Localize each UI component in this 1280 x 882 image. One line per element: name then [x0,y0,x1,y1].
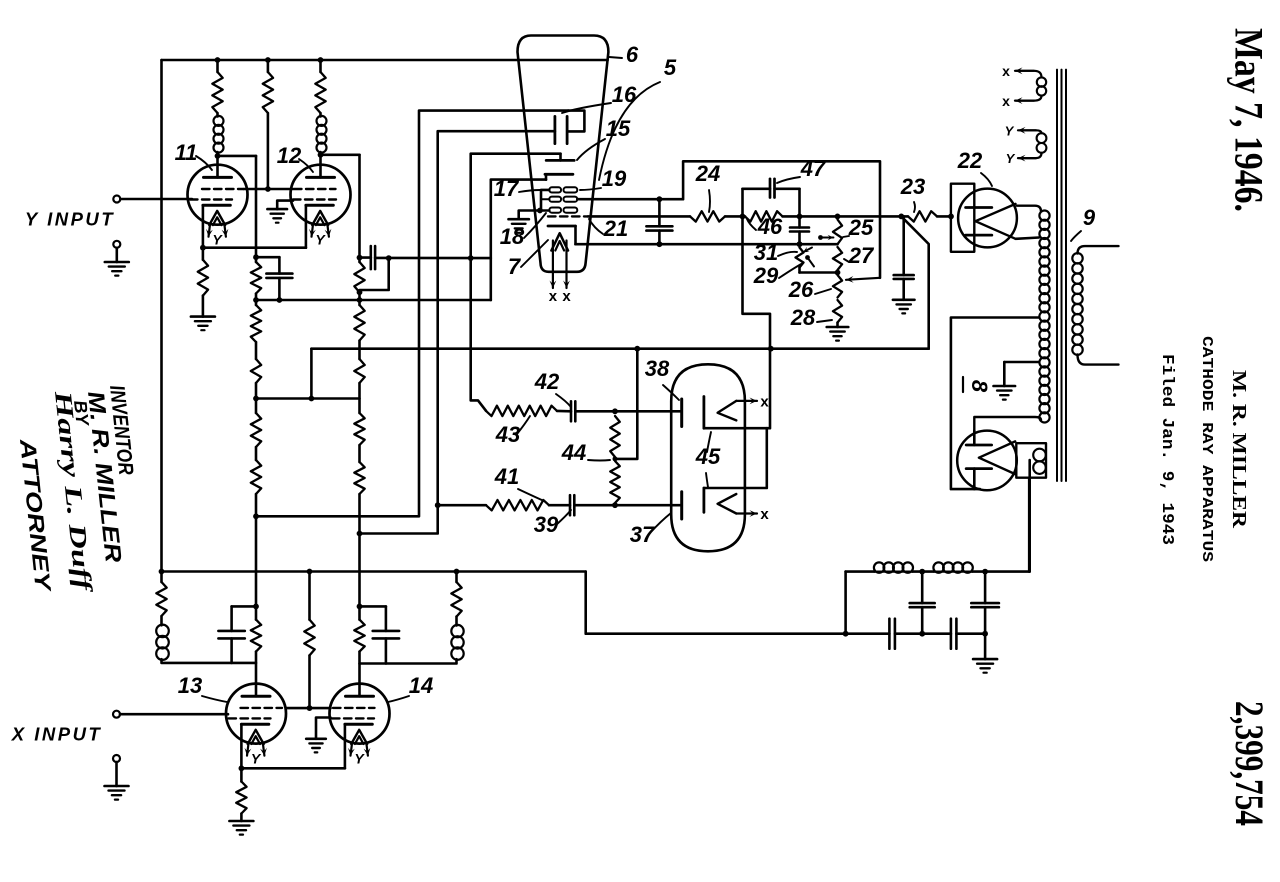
svg-text:47: 47 [800,156,827,181]
svg-text:42: 42 [534,369,560,394]
svg-text:M. R. MILLER: M. R. MILLER [1228,370,1250,529]
svg-text:Y: Y [1005,124,1015,139]
svg-text:37: 37 [630,522,656,547]
svg-text:19: 19 [602,166,627,191]
svg-text:31: 31 [754,240,778,265]
svg-text:15: 15 [606,116,631,141]
svg-text:Filed Jan. 9, 1943: Filed Jan. 9, 1943 [1157,354,1176,545]
svg-text:44: 44 [561,440,586,465]
svg-text:21: 21 [603,216,628,241]
svg-text:X INPUT: X INPUT [11,724,102,745]
svg-text:25: 25 [848,215,874,240]
svg-text:x: x [549,288,558,305]
svg-text:26: 26 [788,277,814,302]
svg-text:2,399,754: 2,399,754 [1227,701,1272,826]
svg-text:13: 13 [178,673,202,698]
svg-text:9: 9 [1083,205,1096,230]
svg-text:17: 17 [494,176,520,201]
svg-text:5: 5 [664,55,677,80]
svg-text:x: x [1002,63,1010,79]
svg-text:Y: Y [1006,151,1016,166]
svg-text:11: 11 [175,140,198,165]
svg-text:29: 29 [753,263,779,288]
svg-text:41: 41 [494,464,519,489]
svg-text:14: 14 [409,673,433,698]
svg-text:38: 38 [645,356,670,381]
svg-text:x: x [1002,93,1010,109]
svg-text:23: 23 [900,174,925,199]
svg-text:6: 6 [626,42,639,67]
svg-text:27: 27 [848,243,875,268]
svg-text:x: x [760,394,769,411]
svg-text:12: 12 [277,143,302,168]
svg-text:x: x [562,288,571,305]
svg-text:7: 7 [508,254,522,279]
svg-text:8: 8 [967,380,992,393]
svg-text:Y INPUT: Y INPUT [25,209,115,230]
svg-text:18: 18 [500,224,525,249]
svg-text:22: 22 [957,148,983,173]
svg-text:CATHODE RAY APPARATUS: CATHODE RAY APPARATUS [1198,336,1214,562]
svg-text:24: 24 [695,161,720,186]
svg-text:28: 28 [790,305,816,330]
svg-text:x: x [760,506,769,523]
svg-text:16: 16 [612,82,637,107]
svg-text:46: 46 [757,214,783,239]
svg-text:May 7, 1946.: May 7, 1946. [1227,28,1272,212]
